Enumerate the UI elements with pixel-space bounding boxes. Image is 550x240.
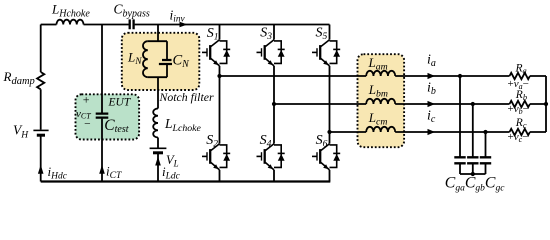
svg-text:EUT: EUT [108,97,132,109]
svg-text:+: + [82,93,90,107]
svg-text:+vc−: +vc− [508,131,529,144]
svg-text:−: − [84,119,92,131]
svg-text:Notch filter: Notch filter [159,90,214,104]
svg-text:+vb−: +vb− [508,103,529,116]
svg-text:+va−: +va− [508,78,529,91]
